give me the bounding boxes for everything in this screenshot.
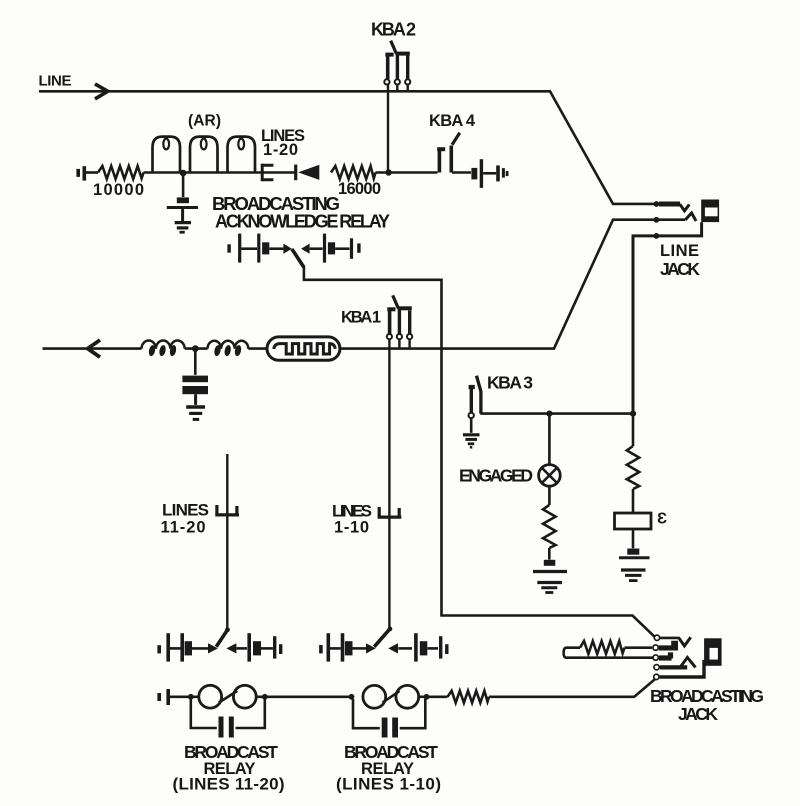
svg-text:16000: 16000 <box>338 180 381 198</box>
svg-text:KBA 2: KBA 2 <box>371 20 416 40</box>
svg-text:ENGAGED: ENGAGED <box>459 466 533 486</box>
svg-text:LINE: LINE <box>660 242 699 260</box>
svg-text:Ɛ: Ɛ <box>657 511 667 528</box>
svg-text:JACK: JACK <box>678 704 718 724</box>
svg-text:JACK: JACK <box>660 259 700 279</box>
svg-text:(AR): (AR) <box>188 113 221 130</box>
svg-text:ACKNOWLEDGE RELAY: ACKNOWLEDGE RELAY <box>215 212 390 232</box>
svg-text:(LINES 1-10): (LINES 1-10) <box>336 775 441 794</box>
svg-text:BROADCAST: BROADCAST <box>184 742 278 762</box>
svg-text:11-20: 11-20 <box>161 519 206 537</box>
svg-text:LINE: LINE <box>39 72 72 89</box>
svg-text:10000: 10000 <box>93 181 144 199</box>
svg-text:KBA 1: KBA 1 <box>341 309 381 327</box>
svg-text:1-20: 1-20 <box>263 141 298 159</box>
svg-text:KBA 4: KBA 4 <box>429 112 476 130</box>
svg-text:LINES: LINES <box>162 501 209 520</box>
svg-text:KBA 3: KBA 3 <box>487 373 533 393</box>
svg-text:(LINES 11-20): (LINES 11-20) <box>173 775 285 794</box>
svg-text:1-10: 1-10 <box>334 519 369 537</box>
svg-text:BROADCASTING: BROADCASTING <box>650 686 764 706</box>
svg-text:BROADCAST: BROADCAST <box>344 742 438 762</box>
